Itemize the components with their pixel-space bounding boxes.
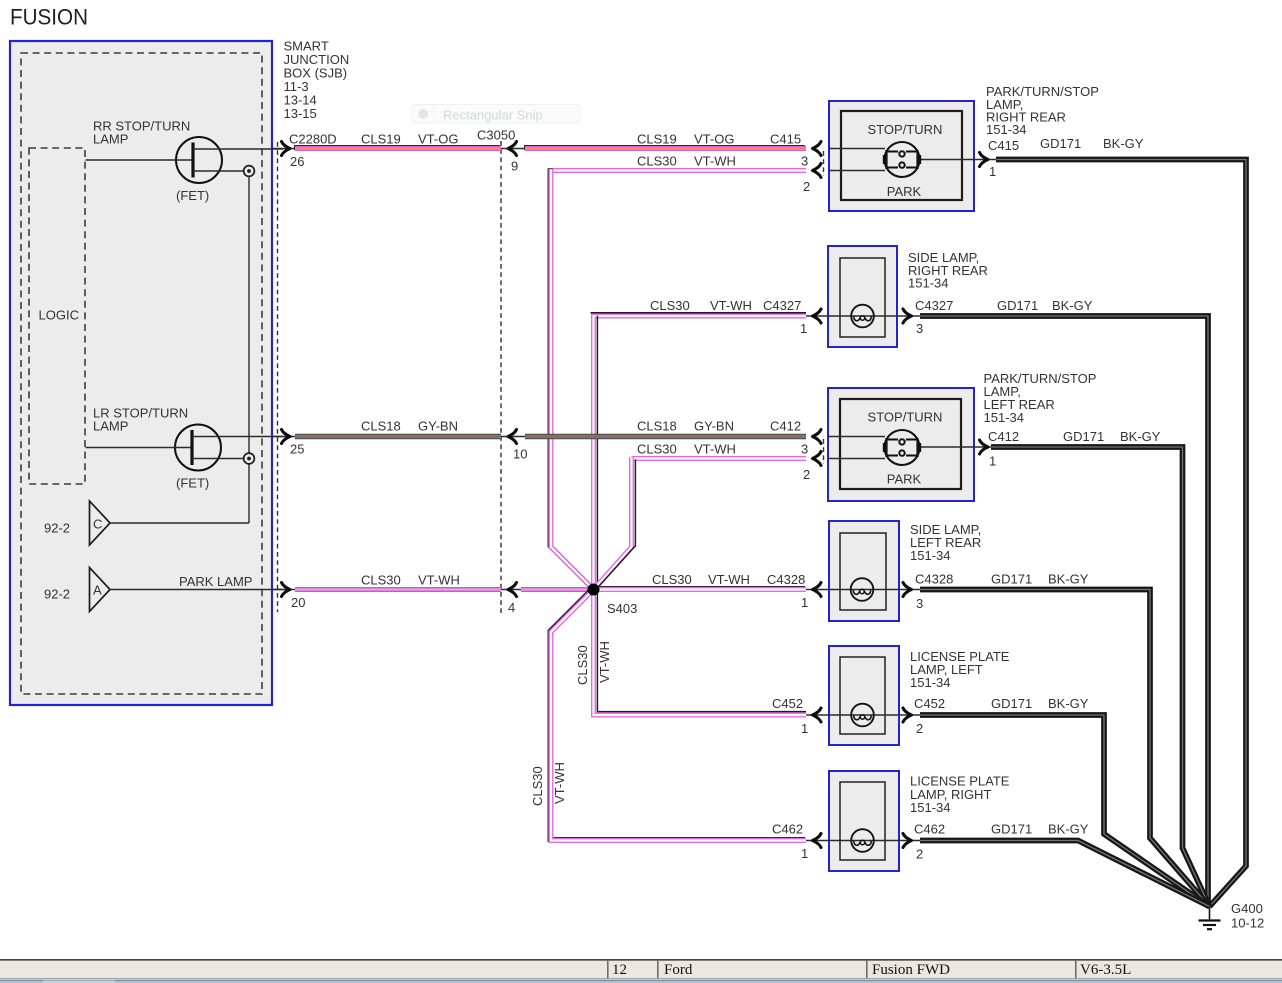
svg-text:1: 1 (801, 595, 808, 610)
svg-text:C462: C462 (772, 822, 803, 837)
snipping-tool tooltip overlay "Rectangular Snip" (412, 105, 580, 124)
LOGIC dashed box (29, 148, 85, 484)
svg-text:CLS19: CLS19 (637, 132, 677, 147)
svg-text:PARK: PARK (887, 184, 922, 199)
lamp3 dual filament bulb (885, 430, 920, 465)
wire buffer C to Q1/Q2 sources (110, 522, 249, 524)
svg-text:C452: C452 (772, 696, 803, 711)
svg-text:CLS18: CLS18 (361, 419, 401, 434)
svg-text:STOP/TURN: STOP/TURN (868, 122, 943, 137)
svg-text:VT-WH: VT-WH (552, 762, 567, 804)
svg-text:PARK LAMP: PARK LAMP (179, 574, 252, 589)
lamp1 connector dashes (823, 151, 825, 176)
ground wire GD171 BK-GY from C4327 (920, 316, 1208, 907)
svg-text:CLS30: CLS30 (530, 766, 545, 806)
svg-text:PARK: PARK (887, 472, 922, 487)
svg-text:STOP/TURN: STOP/TURN (868, 410, 943, 425)
connector arrows at lamp outputs (980, 153, 989, 167)
svg-text:151-34: 151-34 (910, 800, 950, 815)
wire buffer A to pin 20 PARK LAMP (110, 589, 283, 591)
wire CLS30 VT-WH S403 to C452 (south branch) (594, 590, 807, 716)
svg-text:GD171: GD171 (991, 696, 1032, 711)
svg-text:VT-OG: VT-OG (418, 132, 458, 147)
wire CLS30 VT-WH S403 to C415 pin2 (up-left branch) (551, 168, 806, 173)
lamp3 connector dashes (823, 439, 825, 464)
svg-text:Rectangular Snip: Rectangular Snip (443, 108, 543, 123)
svg-text:151-34: 151-34 (986, 122, 1026, 137)
ground wire GD171 BK-GY from C462 (920, 841, 1210, 907)
splice S403 (588, 584, 600, 596)
wire CLS18 GY-BN C3050 to C412 pin3 (525, 434, 806, 439)
svg-text:12: 12 (612, 962, 627, 978)
svg-text:151-34: 151-34 (910, 675, 950, 690)
svg-text:A: A (93, 583, 102, 598)
svg-text:92-2: 92-2 (44, 521, 70, 536)
svg-text:C3050: C3050 (477, 128, 515, 143)
svg-text:3: 3 (916, 596, 923, 611)
FET Q2 LR stop/turn driver (86, 425, 284, 471)
svg-text:C412: C412 (988, 429, 1019, 444)
bottom status bar (0, 959, 1282, 961)
wire CLS19 VT-OG C3050 to C415 pin3 (524, 145, 805, 150)
svg-text:C415: C415 (988, 138, 1019, 153)
svg-text:CLS30: CLS30 (361, 573, 401, 588)
svg-text:GD171: GD171 (1063, 429, 1104, 444)
svg-text:(FET): (FET) (176, 476, 209, 491)
svg-text:10: 10 (513, 447, 527, 462)
svg-text:C452: C452 (914, 696, 945, 711)
lamp4 bulb (851, 578, 874, 601)
lamp3 internal wires (828, 436, 885, 438)
ground wire GD171 BK-GY from C412 (991, 447, 1210, 907)
wire CLS30 VT-WH SJB pin20 to S403 (295, 587, 501, 592)
svg-text:CLS30: CLS30 (637, 154, 677, 169)
Q1 source terminal circle (244, 166, 255, 177)
wire stub pin25 to wire (272, 436, 295, 438)
svg-text:C2280D: C2280D (289, 132, 337, 147)
ground G400 symbol (1209, 907, 1211, 920)
svg-text:C: C (93, 517, 102, 532)
wire CLS30 VT-WH S403 to C4328 (593, 586, 806, 591)
svg-text:CLS18: CLS18 (637, 419, 677, 434)
wire CLS30 VT-WH S403 to C462 (south-west branch) (550, 589, 805, 840)
wire stub pin20 to wire (272, 589, 295, 591)
svg-text:LOGIC: LOGIC (39, 308, 79, 323)
svg-text:G400: G400 (1231, 901, 1263, 916)
svg-text:2: 2 (803, 179, 810, 194)
lamp SIDE LEFT REAR housing (829, 521, 899, 621)
svg-text:VT-WH: VT-WH (597, 641, 612, 683)
svg-text:(FET): (FET) (176, 188, 209, 203)
svg-text:CLS30: CLS30 (575, 645, 590, 685)
svg-text:BK-GY: BK-GY (1048, 696, 1089, 711)
buffer A (92-2) (90, 568, 111, 612)
svg-text:C412: C412 (770, 419, 801, 434)
lamp LICENSE PLATE LEFT housing (829, 646, 899, 745)
svg-text:92-2: 92-2 (44, 587, 70, 602)
ground wire GD171 BK-GY from C452 (920, 715, 1210, 907)
svg-text:3: 3 (801, 442, 808, 457)
svg-text:LAMP: LAMP (93, 132, 128, 147)
svg-text:1: 1 (989, 164, 996, 179)
lamp5 bulb (851, 704, 874, 727)
svg-text:CLS30: CLS30 (652, 572, 692, 587)
lamp5 internal wire (806, 714, 920, 716)
svg-text:3: 3 (801, 154, 808, 169)
svg-text:C415: C415 (770, 132, 801, 147)
svg-text:151-34: 151-34 (910, 548, 950, 563)
svg-text:BK-GY: BK-GY (1048, 572, 1089, 587)
svg-text:151-34: 151-34 (908, 276, 948, 291)
lamp6 bulb (851, 829, 874, 852)
smart junction box SJB outline (10, 41, 272, 705)
svg-text:20: 20 (291, 595, 305, 610)
svg-text:C4327: C4327 (915, 298, 953, 313)
svg-text:BK-GY: BK-GY (1048, 822, 1089, 837)
svg-text:C4328: C4328 (767, 572, 805, 587)
wire Q1 source to node (248, 177, 250, 524)
svg-text:151-34: 151-34 (984, 410, 1024, 425)
lamp4 internal wire (806, 589, 920, 591)
svg-text:S403: S403 (607, 601, 637, 616)
svg-text:VT-WH: VT-WH (694, 154, 736, 169)
lamp6 internal wire (806, 840, 920, 842)
wire stub across C3050 row3 (501, 589, 521, 591)
svg-text:Ford: Ford (664, 962, 693, 978)
svg-text:CLS19: CLS19 (361, 132, 401, 147)
wire stub across C3050 row2 (501, 436, 526, 438)
lamp LICENSE PLATE RIGHT housing (829, 771, 899, 871)
svg-text:CLS30: CLS30 (637, 442, 677, 457)
svg-text:10-12: 10-12 (1231, 916, 1264, 931)
ground wire GD171 BK-GY from C4328 (920, 590, 1210, 907)
svg-text:C462: C462 (914, 822, 945, 837)
SJB outer dashed boundary (21, 53, 262, 694)
ground wire GD171 BK-GY from C415 (996, 160, 1246, 907)
bottom bar separators (607, 961, 609, 978)
svg-text:1: 1 (801, 721, 808, 736)
svg-text:VT-OG: VT-OG (694, 132, 734, 147)
connector C3050 dashed line (500, 141, 502, 613)
lamp2 bulb (851, 305, 874, 328)
svg-text:GY-BN: GY-BN (694, 419, 734, 434)
lamp SIDE RIGHT REAR housing (828, 246, 897, 347)
svg-text:9: 9 (511, 159, 518, 174)
svg-text:1: 1 (989, 454, 996, 469)
svg-text:VT-WH: VT-WH (710, 298, 752, 313)
svg-text:25: 25 (290, 442, 304, 457)
svg-text:BK-GY: BK-GY (1120, 429, 1161, 444)
svg-text:V6-3.5L: V6-3.5L (1080, 962, 1131, 978)
svg-text:GD171: GD171 (991, 822, 1032, 837)
svg-text:GD171: GD171 (1040, 136, 1081, 151)
svg-text:GD171: GD171 (997, 298, 1038, 313)
connector C2280D dashed line (277, 142, 279, 612)
lamp1 internal wires (829, 148, 885, 150)
FET Q1 RR stop/turn driver (86, 137, 284, 183)
lamp1 dual filament bulb (885, 142, 920, 177)
svg-text:Fusion FWD: Fusion FWD (872, 962, 950, 978)
svg-text:1: 1 (800, 321, 807, 336)
lamp2 internal wire (806, 315, 920, 317)
svg-text:CLS30: CLS30 (650, 298, 690, 313)
svg-text:C4327: C4327 (763, 298, 801, 313)
svg-text:FUSION: FUSION (10, 5, 88, 30)
buffer C (92-2) (90, 501, 111, 545)
svg-text:2: 2 (916, 721, 923, 736)
connector arrows at C3050 (508, 142, 517, 156)
wire stub pin26 to wire (272, 148, 295, 150)
svg-text:VT-WH: VT-WH (694, 442, 736, 457)
svg-text:BK-GY: BK-GY (1052, 298, 1093, 313)
wire CLS30 VT-WH S403 to C412 pin2 (up-right branch) (632, 456, 807, 461)
wire CLS30 VT-WH S403 to C4327 (north branch) (594, 316, 807, 590)
lamp PARK/TURN/STOP LEFT REAR housing (828, 388, 974, 501)
svg-text:2: 2 (916, 847, 923, 862)
lamp PARK/TURN/STOP RIGHT REAR housing (829, 101, 974, 211)
svg-text:GD171: GD171 (991, 572, 1032, 587)
svg-text:LAMP: LAMP (93, 419, 128, 434)
svg-text:26: 26 (290, 154, 304, 169)
wire CLS19 VT-OG SJB pin26 to C3050 (294, 145, 500, 150)
svg-text:2: 2 (803, 467, 810, 482)
svg-text:VT-WH: VT-WH (708, 572, 750, 587)
svg-text:1: 1 (801, 846, 808, 861)
svg-text:13-15: 13-15 (284, 106, 317, 121)
connector arrows at SJB outputs (282, 142, 291, 156)
Q2 source terminal circle (244, 453, 255, 464)
connector arrows at lamp inputs (813, 142, 822, 156)
svg-text:3: 3 (916, 321, 923, 336)
wire CLS18 GY-BN SJB pin25 to C3050 (295, 434, 501, 439)
svg-text:VT-WH: VT-WH (418, 573, 460, 588)
wire stub across C3050 row1 (501, 148, 526, 150)
svg-text:4: 4 (508, 600, 515, 615)
svg-text:GY-BN: GY-BN (418, 419, 458, 434)
svg-text:BK-GY: BK-GY (1103, 136, 1144, 151)
svg-text:C4328: C4328 (915, 572, 953, 587)
